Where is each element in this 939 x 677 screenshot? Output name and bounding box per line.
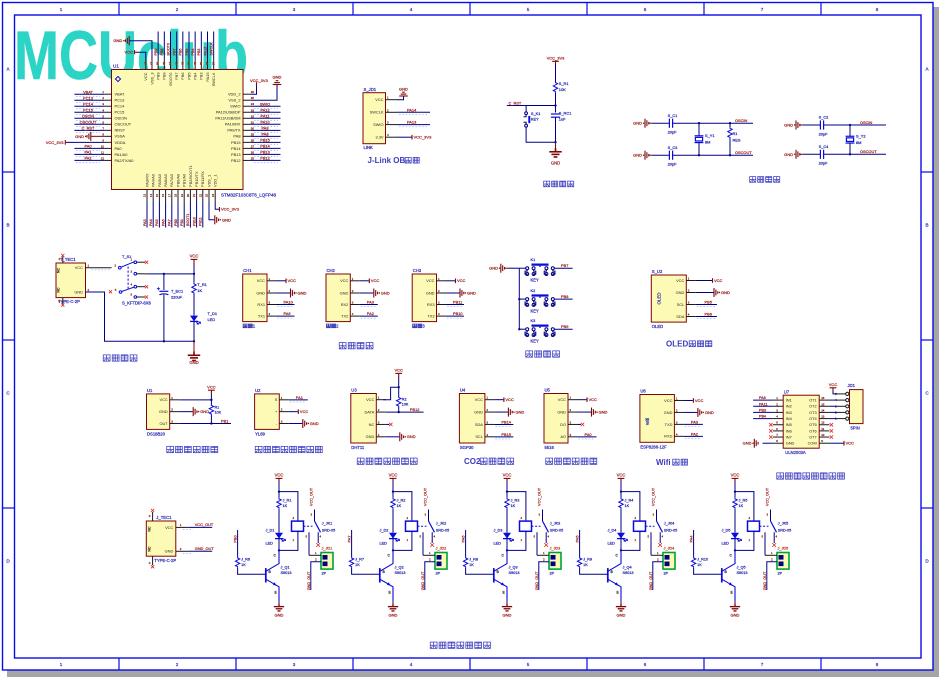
capacitor S_C2 20pF <box>820 120 823 129</box>
svg-text:J_Q1: J_Q1 <box>281 566 290 570</box>
crystal S_Y1 8M <box>698 123 700 136</box>
sensor U1 DS18B20 temperature module <box>147 394 170 430</box>
svg-text:26: 26 <box>251 150 255 154</box>
connector JD1 5PIN stepper <box>850 390 864 424</box>
svg-text:15: 15 <box>155 194 159 198</box>
wire ground rail to K1 <box>519 267 525 269</box>
wire U5 AO to PA0 <box>578 436 597 438</box>
U1 bottom pin 17 stub <box>171 190 173 203</box>
svg-text:BOOT0: BOOT0 <box>168 72 173 86</box>
switch unconnected throws <box>137 261 145 263</box>
svg-text:1: 1 <box>60 7 63 12</box>
U5 DO pin no-connect <box>578 423 582 425</box>
svg-text:35: 35 <box>251 96 255 100</box>
svg-text:1K: 1K <box>625 504 630 508</box>
svg-text:12: 12 <box>101 156 105 160</box>
svg-text:13: 13 <box>821 415 825 419</box>
svg-text:SRD-05: SRD-05 <box>778 528 792 532</box>
wire U1 pin 4 <box>74 111 104 113</box>
wire U1 top pin 38 <box>207 32 209 59</box>
svg-text:OSCIN: OSCIN <box>735 118 748 123</box>
resistor J_R3 1K <box>506 492 508 498</box>
svg-text:GND: GND <box>399 86 408 91</box>
svg-text:SWIO: SWIO <box>373 122 383 127</box>
svg-text:VCC_3V3: VCC_3V3 <box>414 135 433 140</box>
svg-text:CH3: CH3 <box>413 268 422 273</box>
svg-text:SDA: SDA <box>475 422 483 427</box>
svg-text:PB15: PB15 <box>260 137 270 142</box>
U1 bottom pin 24 stub <box>214 190 216 203</box>
U7 IN7 no-connect <box>769 435 772 438</box>
node VCC relay 4 <box>620 490 622 492</box>
svg-text:VCC: VCC <box>207 384 216 389</box>
wire crystal bottom rail <box>652 154 669 156</box>
svg-text:J_JD2: J_JD2 <box>436 547 447 551</box>
U1 pin 4 stub <box>105 111 112 113</box>
label serial 2 <box>326 324 335 328</box>
svg-text:PA0: PA0 <box>115 146 123 151</box>
wire U1 pin 11 <box>74 153 104 155</box>
U1 pin 6 stub <box>105 123 112 125</box>
svg-text:VCC: VCC <box>275 473 284 478</box>
U7 OT6 no-connect <box>830 429 833 432</box>
U1 pin 33 stub <box>243 111 250 113</box>
wire U1 VCC to pull-up rail <box>179 399 211 401</box>
svg-text:IN7: IN7 <box>786 434 792 439</box>
svg-text:1K: 1K <box>739 504 744 508</box>
svg-text:1uF: 1uF <box>559 116 566 121</box>
ground relay unit 3 <box>506 602 508 604</box>
svg-text:VCC: VCC <box>503 473 512 478</box>
svg-text:17: 17 <box>167 194 171 198</box>
wire CH3 pin 4 to PB10 <box>446 315 464 317</box>
svg-text:PB15: PB15 <box>501 432 511 437</box>
svg-text:VCC: VCC <box>695 398 704 403</box>
svg-text:10K: 10K <box>559 87 566 92</box>
wire U1 top pin 43 <box>176 32 178 59</box>
U1 top pin 47 stub <box>151 59 153 70</box>
svg-text:J_Q4: J_Q4 <box>623 566 632 570</box>
microcontroller U1 STM32F103C8T6_LQFP48 <box>112 70 244 190</box>
svg-text:S_JD1: S_JD1 <box>364 87 377 92</box>
U1 pin 35 stub <box>243 99 250 101</box>
svg-text:PB6: PB6 <box>180 73 185 80</box>
svg-text:J_D2: J_D2 <box>380 528 389 532</box>
transistor J_Q3 S9013 <box>493 568 495 582</box>
U1 top pin 39 stub <box>200 59 202 70</box>
svg-text:RES: RES <box>733 138 741 143</box>
svg-text:PB9: PB9 <box>154 49 158 56</box>
U1 top pin 45 stub <box>163 59 165 70</box>
node collector relay 3 <box>506 549 508 551</box>
wire U1 pin 28 <box>250 141 280 143</box>
power rail VCC_3V3 at U1 pin 9 VDDA <box>66 141 105 143</box>
U1 pin 25 stub <box>243 159 250 161</box>
U1 bottom pin 20 stub <box>189 190 191 203</box>
key circuit ground rail <box>518 268 520 329</box>
svg-text:VCC_3V3: VCC_3V3 <box>547 56 566 61</box>
svg-text:PB6: PB6 <box>705 312 712 317</box>
U1 pin 11 stub <box>105 153 112 155</box>
wire U1 top pin 37 <box>213 32 215 59</box>
svg-text:OSCOUT: OSCOUT <box>860 149 877 154</box>
svg-text:VDD_1: VDD_1 <box>213 174 218 187</box>
svg-text:VCC_3V3: VCC_3V3 <box>250 78 269 83</box>
JD1 pin 5 <box>846 392 849 395</box>
ground reset circuit <box>555 142 557 148</box>
wire switch throw 3 to VCC rail <box>137 273 148 275</box>
svg-text:5: 5 <box>527 7 530 12</box>
svg-text:PB14: PB14 <box>501 419 511 424</box>
svg-text:PC14: PC14 <box>115 104 126 109</box>
ground power circuit <box>193 341 195 351</box>
svg-text:LED: LED <box>722 542 730 546</box>
svg-text:PA1: PA1 <box>296 395 303 400</box>
svg-text:4: 4 <box>410 7 413 12</box>
svg-text:KEY: KEY <box>531 277 539 282</box>
svg-text:R1: R1 <box>215 405 220 409</box>
svg-text:RX2: RX2 <box>341 302 349 307</box>
capacitor S_C4 20pF <box>820 150 823 159</box>
svg-text:PA3: PA3 <box>367 300 374 305</box>
wire contact to J_JD3 pin 1 <box>537 554 549 556</box>
svg-text:VCC: VCC <box>505 397 514 402</box>
wire contact to J_JD5 pin 1 <box>765 554 777 556</box>
svg-text:GND: GND <box>381 290 390 295</box>
ground at U7 pin 8 <box>763 442 773 444</box>
sensor U3 DHT11 humidity module <box>351 394 377 444</box>
svg-text:5516: 5516 <box>545 445 555 450</box>
svg-text:27: 27 <box>251 144 255 148</box>
ground at CH2 pin 2 <box>360 292 374 294</box>
svg-text:U3: U3 <box>351 388 357 393</box>
wire U7 IN1 from PA8 <box>753 399 773 401</box>
svg-text:OUT: OUT <box>159 421 168 426</box>
svg-text:SWIO: SWIO <box>230 104 240 109</box>
svg-text:PB7: PB7 <box>561 263 568 268</box>
svg-text:PA9: PA9 <box>284 311 291 316</box>
svg-text:OSCIN: OSCIN <box>82 113 95 118</box>
wire U1 pin 29 <box>250 135 280 137</box>
svg-text:OLED: OLED <box>656 293 661 305</box>
svg-text:2P: 2P <box>778 572 783 576</box>
svg-text:TX3: TX3 <box>427 314 434 319</box>
svg-text:4: 4 <box>410 662 413 667</box>
svg-text:COM: COM <box>808 441 817 446</box>
wire U1 pin 7 <box>74 129 104 131</box>
U1 pin 30 stub <box>243 129 250 131</box>
S_JD1 pin 4 stub <box>386 136 398 138</box>
svg-text:J-Link OB: J-Link OB <box>368 156 406 165</box>
node VCC relay 5 <box>734 490 736 492</box>
ground at S_U2 pin 2 <box>696 292 714 294</box>
svg-text:PA11: PA11 <box>261 113 270 118</box>
ground at U1 pin 8 VSSA <box>91 135 105 137</box>
wire T_TEC1 VCC to switch <box>86 267 112 269</box>
svg-text:J_TEC1: J_TEC1 <box>156 515 172 520</box>
U1 pin 28 stub <box>243 141 250 143</box>
svg-text:GND_OUT: GND_OUT <box>649 571 653 590</box>
LED J_D5 <box>731 533 739 539</box>
wire K2 to PB8 <box>554 298 572 300</box>
sensor U5 5516 light module <box>544 394 568 444</box>
power VCC at CH2 pin 1 <box>360 280 369 282</box>
svg-text:3: 3 <box>293 7 296 12</box>
svg-text:SRD-05: SRD-05 <box>322 528 336 532</box>
wire U6 TXD to PA3 <box>684 423 703 425</box>
svg-text:VCC: VCC <box>159 397 167 402</box>
svg-text:DO: DO <box>560 422 566 427</box>
display S_U2 OLED <box>651 275 686 322</box>
LED T_D1 power circuit <box>190 316 198 322</box>
svg-text:PA4: PA4 <box>689 536 693 543</box>
svg-text:GND: GND <box>731 613 740 618</box>
svg-text:8M: 8M <box>705 140 710 145</box>
wire GND_OUT to J_JD2 pin 2 <box>425 562 435 590</box>
svg-text:2P: 2P <box>322 572 327 576</box>
S_JD1 pin 1 stub <box>386 99 398 101</box>
svg-text:VSS_3: VSS_3 <box>149 73 154 85</box>
J_TEC1 no-connect pins <box>152 512 154 521</box>
svg-text:PA3: PA3 <box>691 419 698 424</box>
svg-text:20pF: 20pF <box>819 131 828 136</box>
U1 pin 5 stub <box>105 117 112 119</box>
wire U1 pin 5 <box>74 117 104 119</box>
JD1 pin 1 <box>846 417 849 420</box>
U1 top pin 38 stub <box>207 59 209 70</box>
power VCC at CH1 pin 1 <box>277 280 286 282</box>
svg-text:RXD: RXD <box>664 434 672 439</box>
wire CH1 pin 4 to PA9 <box>277 315 295 317</box>
svg-text:13: 13 <box>143 194 147 198</box>
svg-text:5PIN: 5PIN <box>851 426 860 431</box>
svg-text:GND: GND <box>467 290 476 295</box>
svg-text:20pF: 20pF <box>819 161 828 166</box>
svg-text:39: 39 <box>199 62 203 66</box>
svg-text:OSCOUT: OSCOUT <box>735 150 752 155</box>
svg-text:VCC: VCC <box>846 441 855 446</box>
svg-text:T_D1: T_D1 <box>208 311 218 316</box>
resistor R1 10K pull-up <box>210 400 212 405</box>
svg-text:J_JD5: J_JD5 <box>778 547 789 551</box>
svg-text:PA4/A0: PA4/A0 <box>151 173 156 187</box>
U1 bottom pin 22 stub <box>202 190 204 203</box>
connector CH1 serial port 1 <box>243 274 267 322</box>
wire U1 pin 1 <box>74 93 104 95</box>
svg-text:GND: GND <box>676 290 685 295</box>
node collector relay 2 <box>392 549 394 551</box>
U1 bottom pin 14 stub <box>152 190 154 203</box>
svg-text:J_R7: J_R7 <box>355 558 364 562</box>
svg-text:GND: GND <box>551 161 560 166</box>
wire U1 pin 27 <box>250 147 280 149</box>
svg-text:PA11: PA11 <box>759 402 767 406</box>
svg-text:PB0: PB0 <box>174 219 178 226</box>
svg-text:SWCLK: SWCLK <box>370 110 384 115</box>
U7 OT5 no-connect <box>830 423 833 426</box>
svg-text:RX1: RX1 <box>257 302 265 307</box>
svg-text:S_C3: S_C3 <box>668 145 678 150</box>
svg-text:PB6: PB6 <box>179 49 183 56</box>
svg-text:CH1: CH1 <box>243 268 252 273</box>
svg-text:OT2: OT2 <box>809 404 817 409</box>
svg-text:40: 40 <box>193 62 197 66</box>
title temperature humidity detection module <box>357 458 417 465</box>
svg-text:PA2: PA2 <box>367 311 374 316</box>
svg-text:PC13: PC13 <box>83 95 93 100</box>
svg-text:LED: LED <box>208 317 216 322</box>
svg-text:T_EC1: T_EC1 <box>171 289 183 294</box>
relay coil K1 <box>279 492 298 521</box>
node VCC relay 1 <box>278 490 280 492</box>
svg-text:VSSA: VSSA <box>115 134 126 139</box>
ground at U6 pin 2 <box>684 411 698 413</box>
wire K3 to PB9 <box>554 328 572 330</box>
svg-text:14: 14 <box>149 194 153 198</box>
ground feed to U1 pin 47 <box>130 41 152 59</box>
svg-text:OSCIN: OSCIN <box>115 116 128 121</box>
svg-text:S_Y2: S_Y2 <box>856 134 866 139</box>
svg-text:S9013: S9013 <box>395 571 406 575</box>
U1 pin 1 stub <box>105 93 112 95</box>
svg-text:J_R10: J_R10 <box>697 558 708 562</box>
svg-text:8: 8 <box>876 7 879 12</box>
ground relay unit 2 <box>392 602 394 604</box>
svg-text:VCC: VCC <box>676 278 684 283</box>
svg-text:NRST: NRST <box>115 128 126 133</box>
svg-text:PB3: PB3 <box>199 73 204 80</box>
svg-text:VCC_OUT: VCC_OUT <box>423 487 427 506</box>
svg-text:VCC: VCC <box>617 473 626 478</box>
svg-text:KEY: KEY <box>531 338 539 343</box>
title crystal circuit <box>750 176 780 182</box>
svg-text:ESP8266-12F: ESP8266-12F <box>640 444 667 449</box>
svg-text:12: 12 <box>821 421 825 425</box>
svg-text:GND_OUT: GND_OUT <box>421 571 425 590</box>
wire CH3 pin 3 to PB11 <box>446 304 464 306</box>
svg-text:VBAT: VBAT <box>115 92 125 97</box>
svg-text:J_D1: J_D1 <box>266 528 275 532</box>
wire U2 S to PA1 <box>289 399 308 401</box>
wire U1 bottom pin 13 <box>146 203 148 228</box>
svg-text:PA3: PA3 <box>143 219 147 226</box>
svg-text:S: S <box>275 397 278 402</box>
svg-text:1K: 1K <box>241 563 246 567</box>
wire U1 top pin 39 <box>200 32 202 59</box>
svg-text:2: 2 <box>176 7 179 12</box>
svg-text:19: 19 <box>180 194 184 198</box>
wire U1 pin 33 <box>250 111 280 113</box>
svg-text:NC: NC <box>147 526 151 531</box>
power VCC at S_U2 pin 1 <box>696 280 712 282</box>
driver U7 ULN2003A <box>783 395 819 448</box>
LED J_D1 <box>275 533 283 539</box>
svg-text:GND: GND <box>721 290 730 295</box>
U1 bottom pin 18 stub <box>177 190 179 203</box>
node VCC relay 2 <box>392 490 394 492</box>
svg-text:GND: GND <box>705 410 714 415</box>
svg-text:22: 22 <box>198 194 202 198</box>
wire U6 RXD to PA2 <box>684 435 703 437</box>
svg-text:NC: NC <box>57 287 61 292</box>
svg-text:J_R2: J_R2 <box>397 499 406 503</box>
svg-text:OLED: OLED <box>666 339 688 348</box>
svg-text:PB15: PB15 <box>231 140 241 145</box>
svg-text:U1: U1 <box>147 388 153 393</box>
svg-text:48: 48 <box>143 62 147 66</box>
svg-text:2P: 2P <box>664 572 669 576</box>
wire GND_OUT to J_JD1 pin 2 <box>311 562 321 590</box>
svg-text:IN4: IN4 <box>786 416 793 421</box>
wire GND_OUT to J_JD3 pin 2 <box>539 562 549 590</box>
svg-text:U5: U5 <box>545 388 551 393</box>
svg-text:30: 30 <box>251 126 255 130</box>
svg-text:PB5: PB5 <box>186 73 191 80</box>
U1 top pin 40 stub <box>194 59 196 70</box>
wire U1 pin 2 <box>74 99 104 101</box>
ground at CH1 pin 2 <box>277 292 291 294</box>
svg-text:1K: 1K <box>355 563 360 567</box>
svg-text:PA10: PA10 <box>284 300 294 305</box>
node VCC relay 3 <box>506 490 508 492</box>
wire U1 bottom pin 17 <box>171 203 173 228</box>
svg-text:VCC_OUT: VCC_OUT <box>309 487 313 506</box>
svg-text:VCC: VCC <box>714 278 723 283</box>
svg-text:PA8: PA8 <box>233 134 240 139</box>
svg-text:GND: GND <box>222 217 231 222</box>
node C_RST <box>554 104 556 106</box>
relay contact terminals 2 <box>422 532 424 555</box>
svg-text:PA9: PA9 <box>261 125 268 130</box>
svg-text:5: 5 <box>527 662 530 667</box>
svg-text:GND: GND <box>503 613 512 618</box>
svg-text:J_R5: J_R5 <box>739 499 748 503</box>
svg-text:GND: GND <box>407 434 416 439</box>
svg-text:SCL: SCL <box>677 302 685 307</box>
svg-text:VCC_3V3: VCC_3V3 <box>46 140 65 145</box>
svg-text:1K: 1K <box>283 504 288 508</box>
svg-text:R2: R2 <box>402 397 407 401</box>
svg-text:S_C1: S_C1 <box>668 113 678 118</box>
svg-text:31: 31 <box>251 120 255 124</box>
svg-text:PB14: PB14 <box>260 143 270 148</box>
svg-text:PA11/USB/DM: PA11/USB/DM <box>215 116 240 121</box>
wire CH2 pin 4 to PA2 <box>360 315 378 317</box>
svg-text:J_D3: J_D3 <box>494 528 503 532</box>
svg-text:U6: U6 <box>640 389 646 394</box>
svg-text:PA5/A0: PA5/A0 <box>157 173 162 187</box>
svg-text:3.3V: 3.3V <box>375 135 383 140</box>
wire U1 bottom pin 22 <box>202 203 204 228</box>
wire U1 pin 32 <box>250 117 280 119</box>
svg-text:VCC_3V3: VCC_3V3 <box>221 207 240 212</box>
LED J_D4 <box>617 533 625 539</box>
svg-text:PB11: PB11 <box>453 300 462 305</box>
svg-text:PB8: PB8 <box>160 49 164 56</box>
svg-text:11: 11 <box>101 150 104 154</box>
svg-text:PA12/USB/DP: PA12/USB/DP <box>216 110 241 115</box>
svg-text:NC: NC <box>369 422 375 427</box>
transistor J_Q1 S9013 <box>265 568 267 582</box>
power rail VCC_3V3 at U1 pin 24 VDD_1 <box>215 203 219 210</box>
svg-text:U2: U2 <box>255 388 261 393</box>
svg-text:PB11/RX: PB11/RX <box>200 171 205 187</box>
label serial 3 <box>413 324 422 328</box>
svg-text:VCC: VCC <box>475 397 483 402</box>
S_JD1 pin 2 stub <box>386 111 398 113</box>
svg-text:GND_OUT: GND_OUT <box>195 546 215 551</box>
svg-text:2P: 2P <box>550 572 555 576</box>
